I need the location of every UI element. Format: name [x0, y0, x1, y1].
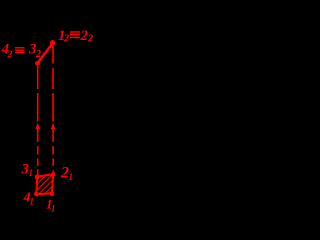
- corner 3_1 dot: [35, 175, 40, 180]
- svg-text:1: 1: [69, 172, 74, 182]
- label 2_1: [60, 165, 73, 183]
- edge-view segment (frontal projection of square): [38, 44, 53, 63]
- left arrow (projection direction): [35, 123, 40, 134]
- right arrow (projection direction): [51, 123, 56, 134]
- svg-text:2: 2: [35, 49, 41, 60]
- square (horizontal projection), hatched: [37, 174, 54, 194]
- svg-text:1: 1: [30, 197, 35, 207]
- corner 1_1 dot: [50, 191, 55, 196]
- node 4_2=3_2 (lower dot): [35, 61, 40, 66]
- svg-text:2: 2: [7, 50, 13, 61]
- left projection line (dashed): [37, 66, 39, 176]
- label 4_1: [23, 191, 35, 207]
- label 4_2 = 3_2: [1, 42, 42, 61]
- right projection line (dashed): [52, 46, 54, 167]
- node 1_2=2_2 (upper dot): [50, 40, 55, 45]
- svg-text:1: 1: [29, 168, 34, 178]
- corner 2_1 arrow: [51, 169, 56, 175]
- svg-text:2: 2: [63, 34, 69, 45]
- corner 4_1 dot: [34, 192, 39, 197]
- label 1_2 = 2_2: [58, 28, 93, 45]
- label 1_1: [46, 197, 56, 214]
- svg-text:1: 1: [51, 204, 56, 214]
- svg-text:2: 2: [87, 34, 93, 45]
- label 3_1: [21, 162, 34, 179]
